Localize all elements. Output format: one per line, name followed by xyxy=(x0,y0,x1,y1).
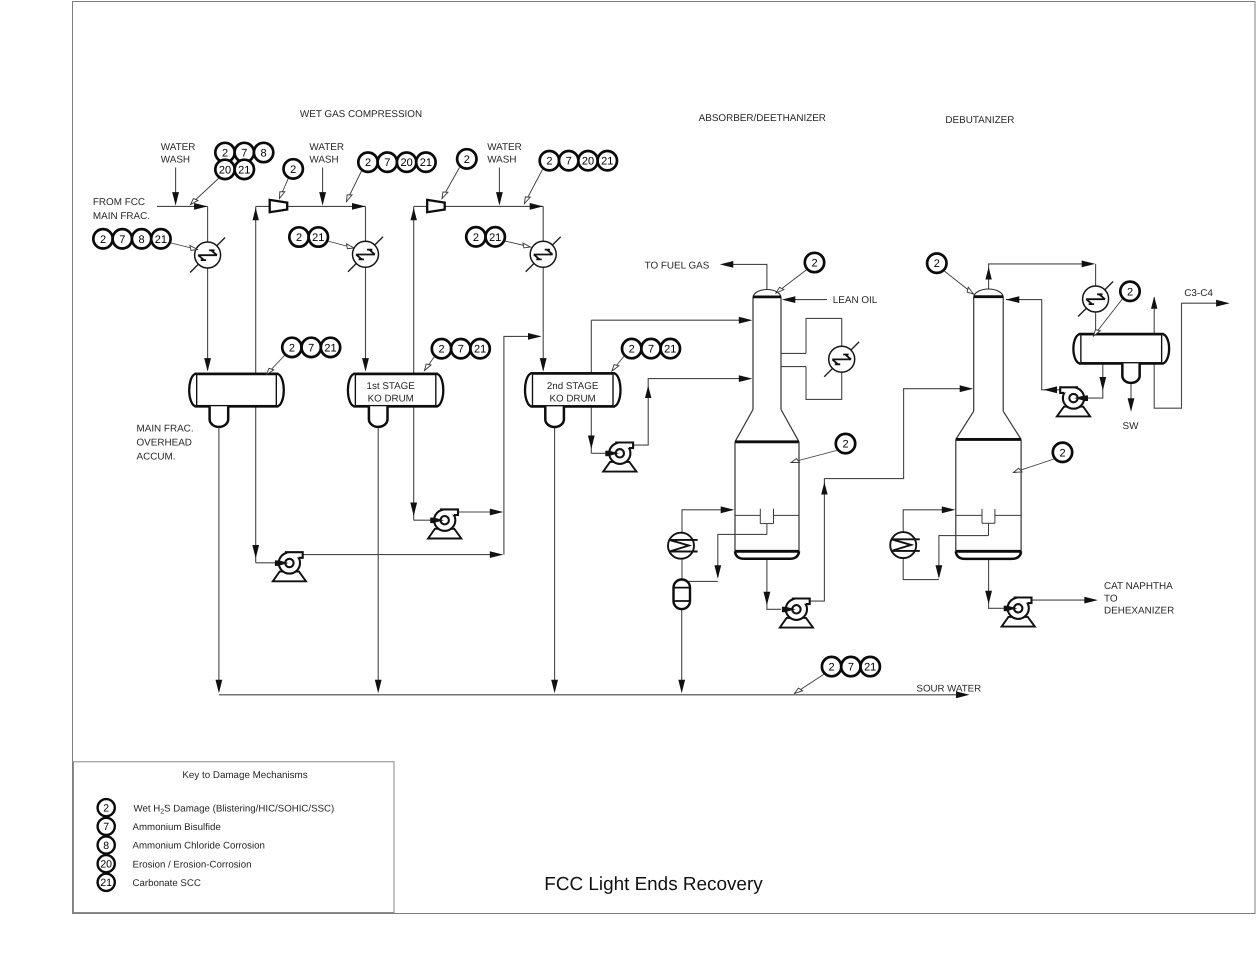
wire: absorber internal draw (over fill) xyxy=(766,524,768,535)
svg-text:Ammonium Chloride Corrosion: Ammonium Chloride Corrosion xyxy=(133,841,265,852)
damage circle 2 at absorber body xyxy=(836,434,855,453)
drum D4 boot xyxy=(1122,363,1139,383)
svg-text:TO FUEL GAS: TO FUEL GAS xyxy=(645,260,710,271)
wire: P5 suction from reflux drum xyxy=(1088,363,1103,398)
arrow: D1 riser up xyxy=(253,208,259,221)
absorber/deethanizer column xyxy=(735,289,799,558)
svg-text:2: 2 xyxy=(811,258,817,270)
exchanger B1 (absorber water circuit) xyxy=(668,533,698,559)
drum D4 reflux drum xyxy=(1080,334,1162,363)
svg-text:7: 7 xyxy=(458,344,464,356)
svg-text:21: 21 xyxy=(601,156,613,168)
arrow: lean oil into absorber xyxy=(782,296,796,303)
wire: absorber bottoms to P4 xyxy=(767,559,781,610)
svg-text:21: 21 xyxy=(324,342,336,354)
damage circle 2 at C1 xyxy=(284,159,303,178)
arrow: to fuel gas left xyxy=(720,261,734,268)
arrow: P2 suction down xyxy=(410,503,417,517)
wire: debutanizer bottoms to P6 xyxy=(989,559,1004,609)
arrow: reflux drum vapor vent up xyxy=(1151,296,1157,309)
svg-text:2: 2 xyxy=(100,234,106,246)
arrow: D2 riser up xyxy=(411,208,417,221)
wire: feed from FCC main frac xyxy=(157,205,208,207)
wire: D2 boot drain to sour water header xyxy=(377,427,379,691)
svg-text:7: 7 xyxy=(848,662,854,674)
svg-text:DEHEXANIZER: DEHEXANIZER xyxy=(1104,605,1174,616)
damage circle 2 at C2 xyxy=(457,149,476,168)
svg-text:7: 7 xyxy=(119,234,125,246)
leader to E3 xyxy=(505,241,531,247)
wire: P3 discharge riser to absorber feed xyxy=(633,379,750,446)
svg-text:2: 2 xyxy=(1127,286,1133,298)
arrow: P5 suction down xyxy=(1099,377,1106,391)
arrow: deb tray draw down xyxy=(936,565,943,579)
svg-text:WASH: WASH xyxy=(161,155,190,166)
arrow: P5 discharge left xyxy=(1044,386,1058,393)
svg-text:8: 8 xyxy=(139,234,145,246)
leader to water wash 2 point xyxy=(347,171,362,202)
pump P6 (debutanizer bottoms) xyxy=(1002,598,1035,627)
legend box Key to Damage Mechanisms xyxy=(74,762,395,913)
svg-text:FROM FCC: FROM FCC xyxy=(93,197,145,208)
svg-text:7: 7 xyxy=(308,342,314,354)
arrow: D3 boot into sour header xyxy=(551,680,558,694)
arrow: feed into stage-1 corner xyxy=(194,203,208,210)
svg-text:7: 7 xyxy=(566,156,572,168)
wire: D3 vapor riser / liquid drop to P3 (behind drum) xyxy=(590,320,592,453)
wire: reflux drum vapor vent (behind drum) + C3-C4 product loop xyxy=(1154,298,1227,409)
arrow: into D3 top xyxy=(540,358,547,372)
pump P2 (D2 liquid) xyxy=(428,509,461,538)
damage circles 2 21 at E3 xyxy=(466,227,485,246)
pump P5 (debutanizer reflux) xyxy=(1057,387,1090,416)
damage circles 2 7 21 at D1 xyxy=(282,338,301,357)
svg-text:2: 2 xyxy=(546,156,552,168)
wire: lean oil feed to absorber xyxy=(794,299,828,301)
wire: sour water header xyxy=(219,694,957,696)
svg-text:20: 20 xyxy=(582,156,594,168)
damage circles 2 7 21 at D2 xyxy=(432,339,451,358)
wire: B1 bottom to flash pot xyxy=(681,558,683,580)
svg-text:21: 21 xyxy=(312,232,324,244)
svg-text:7: 7 xyxy=(241,148,247,160)
svg-text:21: 21 xyxy=(474,344,486,356)
arrow: deb overhead up xyxy=(985,267,991,280)
svg-text:WATER: WATER xyxy=(309,142,344,153)
arrow: vapor into absorber neck xyxy=(739,317,753,324)
exchanger B2 (debutanizer water circuit) xyxy=(890,532,920,558)
arrow: into D1 top xyxy=(204,358,211,372)
svg-text:CAT NAPHTHA: CAT NAPHTHA xyxy=(1104,581,1173,592)
svg-text:2: 2 xyxy=(103,803,109,815)
arrow: cat naphtha outlet xyxy=(1084,597,1098,604)
wire: P1/P2 riser to E3 outlet line xyxy=(504,336,540,554)
damage circles 2 7 20 21 at water wash 3 xyxy=(540,151,559,170)
svg-text:MAIN FRAC.: MAIN FRAC. xyxy=(93,211,150,222)
wire: P1 suction from D1 xyxy=(256,562,276,564)
svg-text:21: 21 xyxy=(864,662,876,674)
wire: absorber overhead to fuel gas xyxy=(732,264,767,290)
drum D1 boot xyxy=(210,406,229,427)
wire: stage-3 header through compressor C2 xyxy=(414,205,544,207)
wire: B2 heated return to debutanizer xyxy=(903,510,953,533)
leader to D3 xyxy=(612,356,625,372)
damage circles 2 7 21 on sour water xyxy=(822,657,841,676)
compressor C2 (wet gas 2nd stage) xyxy=(427,200,445,212)
wire: reboiler draw stubs xyxy=(781,352,806,354)
leader to C1 xyxy=(280,178,289,199)
arrow: water wash 1 down xyxy=(172,192,179,206)
wire: stage-3 drop through cooler E3 to 2nd stage KO drum xyxy=(542,206,544,370)
damage circle 2 at debutanizer top xyxy=(927,254,946,273)
damage circles 2 7 8 / 20 21 at water wash 1 xyxy=(215,143,234,162)
damage circle 2 at debutanizer body xyxy=(1053,443,1072,462)
leader to E2 xyxy=(328,241,355,248)
leader to E1 xyxy=(169,243,198,250)
svg-text:2: 2 xyxy=(222,148,228,160)
svg-text:21: 21 xyxy=(238,164,250,176)
svg-text:7: 7 xyxy=(384,157,390,169)
leader to D2 xyxy=(425,357,435,371)
wire: D3 vapor to absorber xyxy=(591,319,750,321)
svg-text:TO: TO xyxy=(1104,593,1118,604)
svg-text:20: 20 xyxy=(100,859,112,871)
legend circle 7 xyxy=(98,818,115,835)
wire: reflux return from P5 to debutanizer xyxy=(1006,300,1060,390)
svg-text:2: 2 xyxy=(934,258,940,270)
wire: B1 heated return to absorber xyxy=(682,510,733,533)
svg-text:2: 2 xyxy=(365,157,371,169)
heat exchanger E2 (stage-2 cooler) xyxy=(348,237,383,272)
svg-text:2nd STAGE: 2nd STAGE xyxy=(547,381,599,392)
wire: P6 discharge cat naphtha xyxy=(1032,599,1096,601)
arrow: into stage-2 corner xyxy=(352,203,366,210)
arrow: into D2 top xyxy=(362,358,369,372)
svg-text:8: 8 xyxy=(103,840,109,852)
arrow: water wash 3 down xyxy=(496,192,503,206)
svg-text:WASH: WASH xyxy=(487,155,516,166)
svg-text:2: 2 xyxy=(842,439,848,451)
wire: flash pot drain to sour water header xyxy=(681,609,683,691)
wire: D1 boot drain to sour water header xyxy=(218,427,220,691)
arrow: into stage-3 corner xyxy=(530,203,544,210)
damage circle 2 at reflux drum xyxy=(1120,282,1139,301)
svg-text:2: 2 xyxy=(296,232,302,244)
arrow: B1 return into absorber xyxy=(721,506,735,513)
svg-text:8: 8 xyxy=(261,148,267,160)
wire: stage-2 header through compressor C1 xyxy=(256,205,366,207)
arrow: deb bottoms down to P6 xyxy=(985,591,992,605)
drum D3 boot xyxy=(545,406,564,427)
svg-text:KO DRUM: KO DRUM xyxy=(549,393,595,404)
leader to water wash 3 point xyxy=(525,170,543,204)
arrow: tray draw down to flash pot line xyxy=(714,565,721,579)
svg-text:ACCUM.: ACCUM. xyxy=(137,451,176,462)
wire: absorber tray draw-off to flash pot xyxy=(718,524,767,577)
svg-text:21: 21 xyxy=(155,234,167,246)
svg-text:21: 21 xyxy=(489,232,501,244)
pump P1 (D1 liquid) xyxy=(273,552,306,581)
arrow: overhead into condenser corner xyxy=(1082,261,1096,268)
svg-text:OVERHEAD: OVERHEAD xyxy=(137,438,192,449)
arrow: flash pot into sour header xyxy=(678,680,685,694)
heat exchanger E3 (stage-3 cooler) xyxy=(526,237,561,272)
wire: stage-1 drop through cooler E1 to accumulator D1 xyxy=(207,206,209,370)
svg-text:21: 21 xyxy=(420,157,432,169)
heat exchanger E5 (lean oil reboiler) xyxy=(824,342,859,377)
svg-text:1st STAGE: 1st STAGE xyxy=(367,381,416,392)
legend circle 21 xyxy=(98,874,115,891)
svg-text:WET GAS COMPRESSION: WET GAS COMPRESSION xyxy=(300,109,422,120)
drum D3 2nd stage KO drum xyxy=(532,373,614,406)
wire: P2 discharge to riser xyxy=(458,511,501,513)
svg-text:C3-C4: C3-C4 xyxy=(1184,288,1213,299)
arrow: B2 return into debutanizer xyxy=(942,506,956,513)
svg-text:20: 20 xyxy=(400,157,412,169)
svg-text:Carbonate SCC: Carbonate SCC xyxy=(133,878,201,889)
arrow: P3 riser up xyxy=(645,386,651,399)
wire: water wash 1 injection xyxy=(175,168,177,197)
wire: water wash 2 injection xyxy=(322,168,324,197)
damage circle 2 at absorber top xyxy=(805,253,824,272)
svg-text:2: 2 xyxy=(438,344,444,356)
reboiler circulation loop xyxy=(806,318,842,399)
wire: P3 suction from D3 xyxy=(591,452,606,454)
arrow: water wash 2 down xyxy=(319,192,326,206)
svg-text:Wet H2S Damage (Blistering/HIC: Wet H2S Damage (Blistering/HIC/SOHIC/SSC… xyxy=(134,803,335,815)
arrow: P4 riser up xyxy=(821,482,827,495)
arrow: absorber bottoms down to P4 xyxy=(764,592,771,606)
arrow: C3-C4 product right xyxy=(1216,300,1230,307)
pump P3 (D3 liquid) xyxy=(603,443,636,472)
wire: debutanizer tray draw-off xyxy=(939,523,989,577)
arrow: P1 discharge into riser xyxy=(490,551,504,558)
legend circle 20 xyxy=(98,855,115,872)
svg-text:20: 20 xyxy=(219,164,231,176)
leader to absorber body xyxy=(791,450,839,463)
wire: stage-2 drop through cooler E2 to 1st stage KO drum xyxy=(365,206,367,370)
leader to absorber dome xyxy=(776,269,808,293)
wire: D2 vapor riser / liquid drop to P2 (behind drum) xyxy=(413,206,415,520)
svg-text:21: 21 xyxy=(100,877,112,889)
wire: D1 vapor riser / liquid drop to P1 (behind drum) xyxy=(255,206,257,562)
arrow: sour water outlet xyxy=(956,691,970,698)
debutanizer column xyxy=(956,289,1021,559)
arrow: riser into E3 line xyxy=(528,333,542,340)
svg-text:Key to Damage Mechanisms: Key to Damage Mechanisms xyxy=(182,770,307,781)
drum D1 main frac overhead accumulator xyxy=(196,374,277,406)
legend circle 2 xyxy=(98,799,115,816)
leader to D1 xyxy=(267,356,285,375)
damage circles 2 21 at E2 xyxy=(289,227,308,246)
leader to water wash 1 point xyxy=(191,178,220,205)
svg-text:MAIN FRAC.: MAIN FRAC. xyxy=(137,424,194,435)
wire: reflux drum boot to SW xyxy=(1130,382,1132,410)
legend circle 8 xyxy=(98,836,115,853)
damage circles 2 7 21 at D3 xyxy=(622,339,641,358)
svg-text:WATER: WATER xyxy=(161,142,196,153)
leader to debutanizer dome xyxy=(943,270,974,294)
svg-text:ABSORBER/DEETHANIZER: ABSORBER/DEETHANIZER xyxy=(699,113,826,124)
svg-text:2: 2 xyxy=(289,342,295,354)
svg-text:Erosion / Erosion-Corrosion: Erosion / Erosion-Corrosion xyxy=(133,859,252,870)
arrow: SW outlet down xyxy=(1128,398,1135,412)
svg-text:WATER: WATER xyxy=(487,142,522,153)
svg-text:2: 2 xyxy=(290,164,296,176)
svg-text:KO DRUM: KO DRUM xyxy=(368,393,414,404)
wire: P4 discharge riser to debutanizer feed xyxy=(810,389,972,601)
svg-text:SOUR WATER: SOUR WATER xyxy=(917,683,982,694)
svg-text:2: 2 xyxy=(473,232,479,244)
svg-text:21: 21 xyxy=(664,344,676,356)
svg-text:LEAN OIL: LEAN OIL xyxy=(833,295,878,306)
arrow: P1 suction down xyxy=(252,545,259,559)
svg-text:WASH: WASH xyxy=(309,155,338,166)
drum D2 boot xyxy=(369,406,388,427)
drum D2 1st stage KO drum xyxy=(355,374,437,406)
damage circles 2 7 8 21 on FCC feed xyxy=(93,229,112,248)
wire: water wash 3 injection xyxy=(498,168,500,197)
wire: D3 boot drain to sour water header xyxy=(554,427,556,691)
svg-text:7: 7 xyxy=(648,344,654,356)
flash pot capsule drum xyxy=(674,580,691,610)
leader to reflux drum xyxy=(1094,298,1124,337)
heat exchanger E4 (debutanizer condenser) xyxy=(1078,282,1113,317)
wire: B2 bottom loop to tray draw xyxy=(903,558,939,580)
svg-text:2: 2 xyxy=(464,154,470,166)
pump P4 (absorber bottoms) xyxy=(780,599,813,628)
svg-text:SW: SW xyxy=(1123,421,1140,432)
leader to debutanizer body xyxy=(1014,459,1056,473)
arrow: D2 boot into sour header xyxy=(375,680,382,694)
leader to sour water header xyxy=(795,674,826,694)
arrow: P3 suction down xyxy=(588,436,595,450)
compressor C1 (wet gas 1st stage) xyxy=(270,200,288,212)
wire: P1 discharge to riser xyxy=(303,554,501,556)
svg-text:2: 2 xyxy=(1059,447,1065,459)
svg-text:DEBUTANIZER: DEBUTANIZER xyxy=(945,115,1014,126)
svg-text:2: 2 xyxy=(629,344,635,356)
wire: debutanizer overhead to condenser E4 xyxy=(989,264,1094,291)
arrow: liquid feed into absorber neck xyxy=(739,375,753,382)
leader to C2 xyxy=(442,168,460,199)
heat exchanger E1 (stage-1 cooler) xyxy=(190,238,225,273)
arrow: D1 boot into sour header xyxy=(216,680,223,694)
damage circles 2 7 20 21 at water wash 2 xyxy=(358,153,377,172)
arrow: feed into debutanizer neck xyxy=(960,385,974,392)
arrow: reflux into deb neck xyxy=(1006,296,1020,303)
svg-text:2: 2 xyxy=(829,662,835,674)
wire: P2 suction from D2 xyxy=(414,519,431,521)
arrow: P2 discharge into riser xyxy=(490,509,504,516)
svg-text:Ammonium Bisulfide: Ammonium Bisulfide xyxy=(133,822,221,833)
svg-text:7: 7 xyxy=(103,821,109,833)
svg-text:FCC Light Ends Recovery: FCC Light Ends Recovery xyxy=(544,874,763,895)
